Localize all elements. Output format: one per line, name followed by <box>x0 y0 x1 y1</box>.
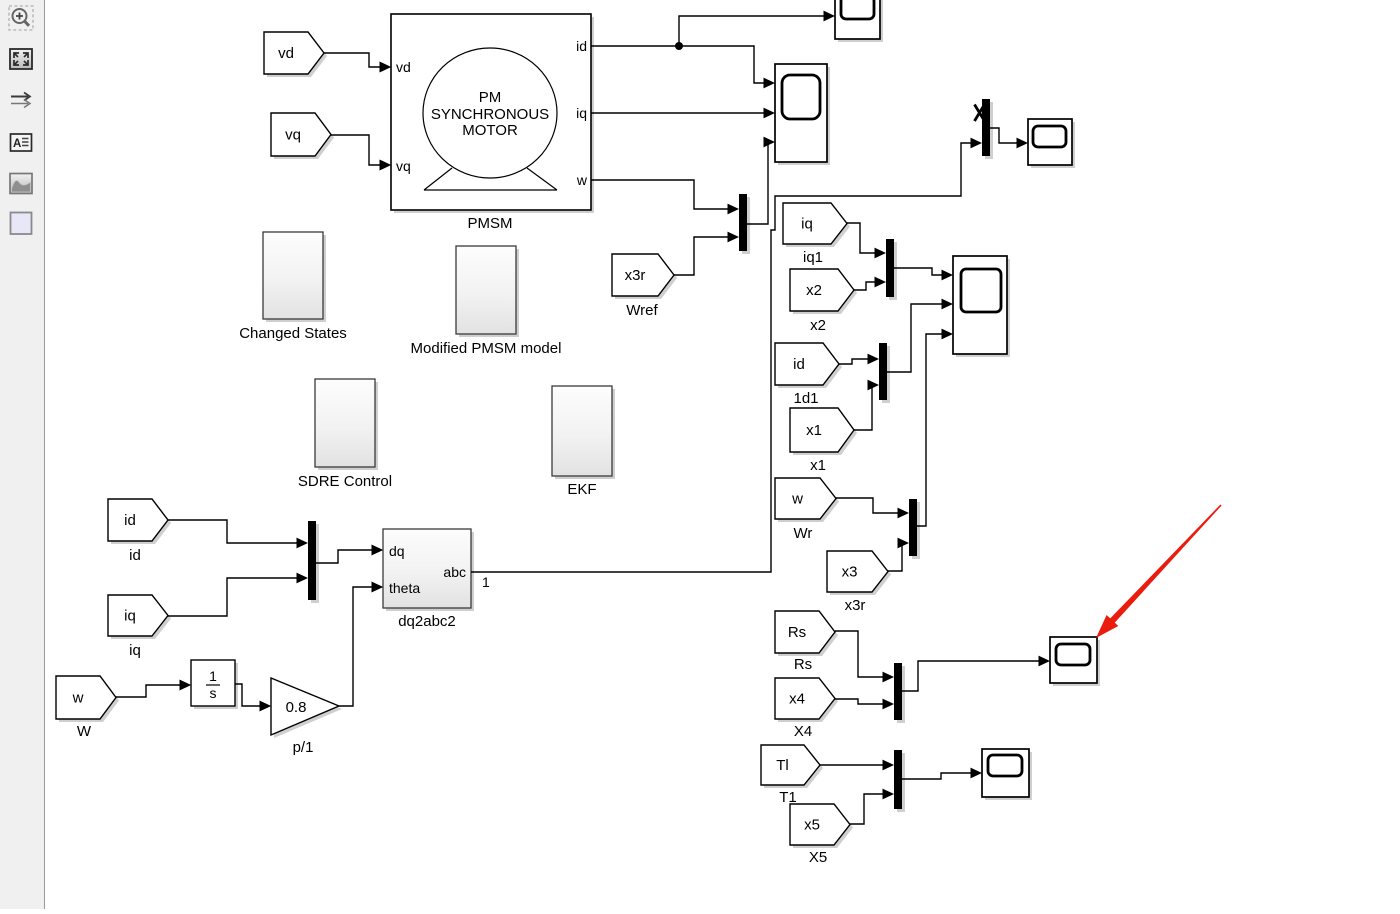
svg-text:iq: iq <box>576 105 587 121</box>
svg-text:MOTOR: MOTOR <box>462 122 518 139</box>
svg-text:vq: vq <box>396 158 411 174</box>
svg-text:vd: vd <box>396 59 411 75</box>
svg-text:Wr: Wr <box>794 525 813 542</box>
svg-text:x1: x1 <box>806 422 822 439</box>
svg-text:1: 1 <box>482 574 490 590</box>
svg-text:SYNCHRONOUS: SYNCHRONOUS <box>431 106 549 123</box>
svg-text:Modified PMSM model: Modified PMSM model <box>411 340 562 357</box>
svg-text:1d1: 1d1 <box>793 390 818 407</box>
svg-text:EKF: EKF <box>567 481 596 498</box>
svg-text:x4: x4 <box>789 691 805 708</box>
svg-text:w: w <box>576 172 588 188</box>
svg-text:x1: x1 <box>810 457 826 474</box>
svg-text:iq: iq <box>801 216 813 233</box>
svg-text:iq: iq <box>124 608 136 625</box>
svg-text:vq: vq <box>285 127 301 144</box>
svg-text:x2: x2 <box>806 282 822 299</box>
svg-text:Tl: Tl <box>776 757 789 774</box>
svg-text:w: w <box>791 491 803 508</box>
svg-text:X5: X5 <box>809 849 827 866</box>
svg-text:iq1: iq1 <box>803 249 823 266</box>
svg-text:abc: abc <box>443 564 466 580</box>
svg-text:dq: dq <box>389 543 405 559</box>
svg-text:iq: iq <box>129 642 141 659</box>
svg-text:PM: PM <box>479 89 502 106</box>
svg-text:x3r: x3r <box>845 597 866 614</box>
svg-text:s: s <box>210 685 217 701</box>
svg-text:1: 1 <box>209 668 217 684</box>
svg-text:p/1: p/1 <box>293 739 314 756</box>
svg-text:Rs: Rs <box>788 624 806 641</box>
svg-text:PMSM: PMSM <box>468 215 513 232</box>
svg-text:Rs: Rs <box>794 656 812 673</box>
svg-text:x3r: x3r <box>625 267 646 284</box>
svg-text:x3: x3 <box>842 564 858 581</box>
svg-text:id: id <box>576 38 587 54</box>
svg-text:id: id <box>793 356 805 373</box>
svg-text:X4: X4 <box>794 723 812 740</box>
svg-text:id: id <box>129 547 141 564</box>
svg-text:x5: x5 <box>804 817 820 834</box>
svg-text:A: A <box>13 138 21 150</box>
svg-text:vd: vd <box>278 45 294 62</box>
svg-text:Wref: Wref <box>626 302 658 319</box>
svg-text:id: id <box>124 512 136 529</box>
svg-text:0.8: 0.8 <box>286 699 307 716</box>
svg-text:w: w <box>72 690 84 707</box>
svg-text:theta: theta <box>389 580 420 596</box>
svg-text:SDRE Control: SDRE Control <box>298 473 392 490</box>
svg-text:x2: x2 <box>810 317 826 334</box>
svg-text:dq2abc2: dq2abc2 <box>398 613 456 630</box>
svg-text:W: W <box>77 723 92 740</box>
svg-text:Changed States: Changed States <box>239 325 347 342</box>
